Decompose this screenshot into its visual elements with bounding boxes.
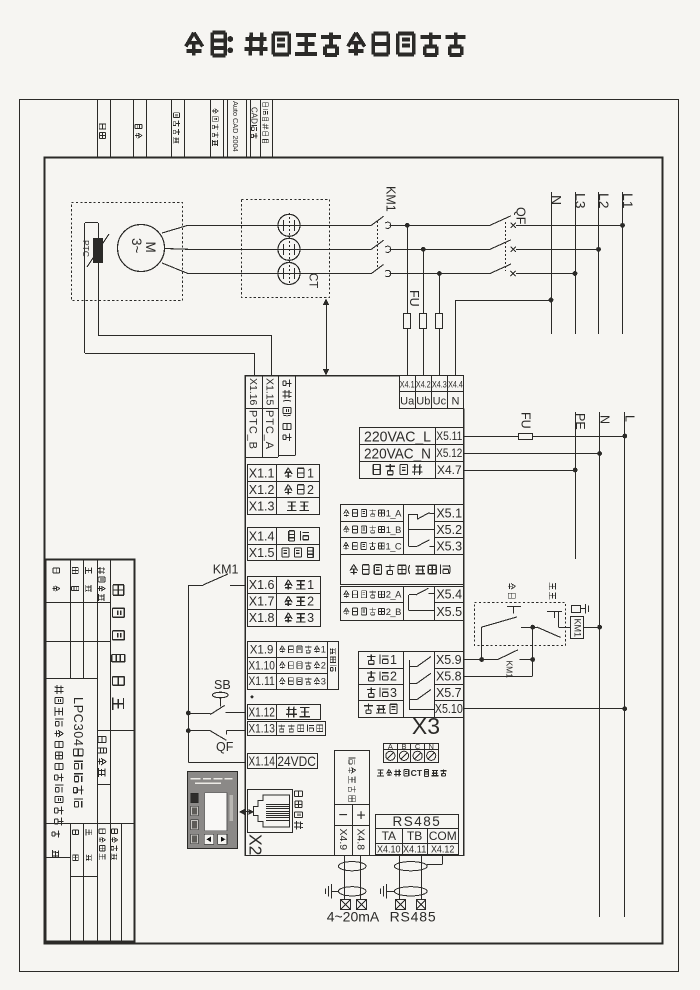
input row X1.4 复位 <box>248 528 320 545</box>
relay contacts control common <box>409 657 434 710</box>
svg-text:L3: L3 <box>572 193 588 209</box>
terminal row 保护接地 X4.7 <box>360 462 464 479</box>
left control bus vertical <box>188 585 190 763</box>
fuse group FU label <box>407 290 421 307</box>
terminal cells X1.16 X1.15 with 温度(热)保护 <box>245 376 295 458</box>
svg-text:N: N <box>598 415 612 424</box>
wire X5.12 to N <box>464 453 600 455</box>
svg-text:X1.14: X1.14 <box>248 754 275 768</box>
control label 公共端 <box>364 704 397 714</box>
motor M1 circle <box>118 225 165 272</box>
terminal block X4.1-X4.4 <box>399 376 463 409</box>
svg-text:X4.10: X4.10 <box>377 844 401 855</box>
label KM1 aux <box>505 661 515 679</box>
svg-text:X4.4: X4.4 <box>448 379 463 389</box>
junction dot QF node <box>186 728 191 733</box>
riser start button left <box>481 627 483 659</box>
wire KM1 to QF phase V <box>390 249 491 251</box>
fuse FU3 <box>436 274 443 376</box>
input row X1.7 反馈2 <box>248 594 321 610</box>
border strip cell 签名 <box>133 99 135 158</box>
wire phase V motor to KM1 <box>188 249 371 251</box>
border strip cell 借通用件登记 <box>260 99 262 158</box>
title block grid lines <box>45 559 134 942</box>
analog polarity cells - + <box>335 804 370 826</box>
svg-text:X1.7: X1.7 <box>249 595 275 609</box>
PTC sensor loop wires <box>85 222 98 224</box>
junction dot X5.9 node <box>479 657 484 662</box>
start pushbutton NO 启动 <box>482 607 533 628</box>
RS485 block frame <box>376 815 459 855</box>
RJ45 jack X2 <box>248 790 293 833</box>
svg-text:Ua: Ua <box>400 396 415 408</box>
svg-text:FU: FU <box>407 290 421 307</box>
svg-text:X1.13: X1.13 <box>248 723 275 735</box>
svg-text:X1.10: X1.10 <box>248 660 275 672</box>
svg-text:X1.11: X1.11 <box>248 676 275 688</box>
svg-text:1_B: 1_B <box>386 524 402 535</box>
input row X1.8 反馈3 <box>248 610 321 627</box>
wire X4.7 to PE <box>464 470 576 472</box>
PTC thermistor element <box>94 239 103 263</box>
svg-text:3~: 3~ <box>129 238 144 254</box>
current transformer CT1 <box>278 214 300 236</box>
junction dot start-stop node <box>530 625 535 630</box>
title block project name LPC304 电机测控仪 <box>71 697 85 807</box>
svg-text:COM: COM <box>429 829 457 843</box>
svg-text:X1.5: X1.5 <box>249 546 275 560</box>
svg-text:1: 1 <box>307 466 314 480</box>
svg-text:2: 2 <box>390 670 397 684</box>
CT dotted enclosure <box>242 200 330 298</box>
breaker QF label <box>514 207 528 225</box>
title block company name 烟台华力电气 <box>112 585 125 710</box>
svg-text:24VDC: 24VDC <box>277 753 316 769</box>
wire QF to L2 <box>516 249 599 251</box>
line N lower <box>599 412 601 917</box>
PTC wire to X1.15 <box>98 335 272 337</box>
svg-text:220VAC_L: 220VAC_L <box>364 430 431 446</box>
svg-text:X1.16: X1.16 <box>247 378 259 406</box>
svg-text:L: L <box>623 415 637 422</box>
svg-text:Auto CAD 2004: Auto CAD 2004 <box>231 101 240 152</box>
inner drawing frame <box>45 158 663 944</box>
wire coil to N <box>583 627 599 629</box>
fuse FU control <box>519 434 533 440</box>
wire QF to L1 <box>516 225 623 227</box>
svg-text:SB: SB <box>214 678 231 692</box>
svg-text:X4.11: X4.11 <box>403 844 427 855</box>
stray ink dot <box>251 696 254 699</box>
title block bottom cells 图号/日期/比例/设计阶段/设计代号 <box>52 831 60 858</box>
input row X1.10 可编程输入2 <box>248 658 328 674</box>
wire X5.9 right <box>464 659 482 661</box>
input row X1.6 反馈1 <box>248 577 321 594</box>
junction dot phase U fuse tap <box>405 223 410 228</box>
PTC wire to X1.16 <box>85 353 255 355</box>
svg-text:X4.8: X4.8 <box>354 829 366 851</box>
stop pushbutton NC 停车 <box>533 611 562 637</box>
svg-text:X5.4: X5.4 <box>436 588 462 602</box>
analog output box 模拟量输出 <box>335 751 370 805</box>
svg-text:QF: QF <box>514 207 528 225</box>
svg-text:PTC: PTC <box>81 240 91 257</box>
input row X1.9 可编程输入1 <box>248 642 328 658</box>
svg-text:LPC304: LPC304 <box>71 697 85 746</box>
svg-text:Ub: Ub <box>416 396 430 408</box>
svg-text:X5.8: X5.8 <box>436 670 462 684</box>
wire X5.10 to L <box>464 708 625 710</box>
cable terminals RS485 <box>396 900 406 910</box>
svg-text:X1.3: X1.3 <box>249 499 275 513</box>
label 停车 rotated <box>549 583 555 600</box>
terminal X1.15 PTC_A label <box>263 378 275 406</box>
svg-text:L2: L2 <box>596 193 612 209</box>
label 面板接口 <box>294 791 303 830</box>
svg-text:3: 3 <box>321 676 326 686</box>
svg-text:TB: TB <box>407 829 422 843</box>
svg-text:N: N <box>548 195 564 205</box>
svg-text:KM1: KM1 <box>505 661 515 679</box>
motor dotted enclosure <box>72 203 183 301</box>
svg-text:N: N <box>452 396 460 408</box>
wire X5.8 right up <box>464 676 533 678</box>
CT secondary arrow to controller <box>326 302 328 373</box>
drawing title 附二:直接旁路启动接线图 <box>186 33 466 56</box>
svg-text:1_C: 1_C <box>386 540 402 551</box>
screw terminal circle <box>427 751 436 760</box>
junction dot L1 <box>620 223 625 228</box>
border strip cell Auto CAD 2004 <box>227 99 229 158</box>
svg-text:PE: PE <box>573 413 587 430</box>
svg-text:X1.2: X1.2 <box>249 483 275 497</box>
junction dot L2 <box>596 247 601 252</box>
junction dot L3 <box>573 271 578 276</box>
breaker QF pole link dashed <box>505 222 507 271</box>
wire stop to coil <box>558 627 571 629</box>
contactor KM1 pole 2 <box>371 240 390 252</box>
label 启动 rotated <box>508 584 516 599</box>
svg-text:KM1: KM1 <box>213 563 239 577</box>
feedback contact KM1 NO <box>188 574 245 586</box>
screw terminal circle <box>399 751 408 760</box>
output rows 可编程输出1 X5.1-X5.3 frame <box>340 505 463 555</box>
svg-text:X5.1: X5.1 <box>436 507 462 521</box>
svg-text:3: 3 <box>390 686 397 700</box>
line PE <box>575 412 577 559</box>
svg-text:2_A: 2_A <box>386 589 402 600</box>
title block cell 分项名称 <box>98 737 107 777</box>
supply line L2 <box>598 192 600 334</box>
wire QF to L3 <box>516 273 575 275</box>
input row X1.3 停车 <box>248 498 320 515</box>
border strip cell CAD制图 <box>250 99 252 158</box>
svg-text:B: B <box>401 742 406 751</box>
svg-text:X5.5: X5.5 <box>436 605 462 619</box>
motor label M 3~ <box>143 242 158 253</box>
svg-text:+: + <box>356 808 365 825</box>
svg-text:Uc: Uc <box>433 396 447 408</box>
svg-text:X3: X3 <box>412 713 440 739</box>
breaker QF pole 1 <box>490 216 516 228</box>
svg-text:CT: CT <box>411 768 423 778</box>
svg-text:X4.2: X4.2 <box>416 379 431 389</box>
svg-text:1_A: 1_A <box>386 507 402 518</box>
svg-text:X1.8: X1.8 <box>249 611 275 625</box>
input row X1.1 启动1 <box>248 465 320 482</box>
fuse FU2 <box>420 249 427 375</box>
emergency stop SB NC <box>188 697 245 714</box>
svg-text:RS485: RS485 <box>390 909 437 925</box>
wire 24VDC supply <box>188 762 190 764</box>
terminal row 220VAC_L X5.11 <box>360 428 464 446</box>
border strip cell 底图总号 <box>171 99 173 158</box>
title block header cells 设计/校对/审核/工程名称 <box>53 568 60 591</box>
relay contact SPDT K1 <box>409 513 435 547</box>
screw terminal circle <box>413 751 422 760</box>
svg-text:X5.9: X5.9 <box>436 653 462 667</box>
CT winding ticks <box>284 220 295 279</box>
junction dot X5.10-L <box>622 706 627 711</box>
svg-text:X5.11: X5.11 <box>436 429 462 443</box>
title block frame <box>46 560 135 942</box>
supply line N top <box>551 192 553 334</box>
border strip cell 旧底图总号 <box>210 99 212 158</box>
svg-text:X4.7: X4.7 <box>437 463 462 477</box>
junction dot X5.11-L <box>622 434 627 439</box>
connector designation X2 <box>245 834 265 855</box>
input row X1.12 紧停 <box>248 705 321 720</box>
PTC label <box>81 240 91 257</box>
input row X1.11 可编程输入3 <box>248 674 328 690</box>
svg-text:X5.7: X5.7 <box>436 686 462 700</box>
junction dot phase V fuse tap <box>421 247 426 252</box>
motor phase stubs <box>162 225 188 233</box>
wire X4.4 to N <box>456 300 552 302</box>
svg-text:RS485: RS485 <box>393 814 442 829</box>
bracket 自定义 for programmable inputs <box>328 642 339 690</box>
svg-text:X1.4: X1.4 <box>249 529 275 543</box>
contactor coil KM1 <box>571 617 584 639</box>
junction dot X5.12-N <box>597 451 602 456</box>
coil suppressor box <box>572 606 581 613</box>
wire X5.11 to L with fuse FU <box>464 436 518 438</box>
junction dot stop node <box>530 657 535 662</box>
junction dot X4.7-PE <box>573 468 578 473</box>
svg-text:L1: L1 <box>620 193 636 209</box>
auxiliary contact KM1 self-hold <box>482 650 533 660</box>
svg-text:X1.1: X1.1 <box>249 466 275 480</box>
current transformer CT2 <box>278 238 300 260</box>
breaker QF pole 3 <box>490 264 516 276</box>
svg-text:1: 1 <box>390 653 397 667</box>
CT secondary link dashed <box>289 213 291 285</box>
control rows 控制1-3 公共端 frame <box>358 651 463 718</box>
svg-text:X4.3: X4.3 <box>432 379 447 389</box>
svg-text:FU: FU <box>519 412 533 429</box>
breaker position contact QF NO <box>188 731 245 741</box>
wire KM1 to QF phase U <box>390 225 491 227</box>
terminal block ABCN for external CT <box>384 744 439 763</box>
input row X1.5 热清零 <box>248 545 320 561</box>
svg-text:CAD: CAD <box>249 107 258 124</box>
svg-text:PTC_A: PTC_A <box>263 410 275 450</box>
title block drawing name 直接旁路启动方式控制接线图 <box>55 685 64 825</box>
supply line L1 <box>622 192 624 334</box>
junction dot phase W fuse tap <box>437 271 442 276</box>
CT label <box>307 273 319 288</box>
riser start button right <box>532 627 534 659</box>
terminals X4.9 X4.8 <box>335 826 370 856</box>
svg-text:2: 2 <box>307 595 314 609</box>
svg-text:X4.1: X4.1 <box>400 379 415 389</box>
panel link arrow <box>241 811 252 813</box>
svg-text:X4.12: X4.12 <box>431 844 455 855</box>
wire KM1 to QF phase W <box>390 273 491 275</box>
svg-text:2: 2 <box>321 661 326 671</box>
svg-text:PTC_B: PTC_B <box>247 410 259 449</box>
svg-text:A: A <box>388 742 393 751</box>
svg-text:X4.9: X4.9 <box>337 829 349 851</box>
relay contact NO K2 <box>409 588 435 610</box>
input row X1.2 启动2 <box>248 482 320 498</box>
contactor KM1 pole 3 <box>371 265 390 277</box>
svg-text:2: 2 <box>307 483 314 497</box>
border strip cell 日期 <box>97 99 99 158</box>
svg-text:X2: X2 <box>245 834 265 855</box>
svg-text:3: 3 <box>307 611 314 625</box>
label 温度(热)保护 <box>283 380 292 442</box>
svg-text:X1.6: X1.6 <box>249 578 275 592</box>
input row X1.14 24VDC <box>248 753 318 769</box>
svg-text:KM1: KM1 <box>384 186 398 212</box>
svg-text:TA: TA <box>382 829 396 843</box>
wire X4.12 into cable <box>442 855 444 864</box>
current transformer CT3 <box>278 263 300 285</box>
wire phase W motor to KM1 <box>188 273 371 275</box>
svg-text:C: C <box>415 742 421 751</box>
junction dot coil-N <box>597 625 602 630</box>
shielded cable RS485 <box>381 855 428 899</box>
supply line L3 <box>575 192 577 334</box>
svg-text:M: M <box>143 242 158 253</box>
svg-text:CT: CT <box>307 273 319 288</box>
input row X1.13 断路器位置 <box>248 722 326 736</box>
svg-text:X1.15: X1.15 <box>263 378 275 406</box>
svg-text:X5.2: X5.2 <box>436 523 462 537</box>
fuse FU1 <box>404 225 411 375</box>
junction dot N <box>549 298 554 303</box>
svg-text:QF: QF <box>216 740 234 754</box>
output rows 可编程输出2 X5.4-X5.5 frame <box>340 586 463 620</box>
junction dot SB node <box>186 711 191 716</box>
wire phase U motor to KM1 <box>188 225 371 227</box>
svg-text:220VAC_N: 220VAC_N <box>364 447 431 463</box>
contactor KM1 pole 1 <box>371 216 390 228</box>
display panel LPC304 device <box>188 772 238 849</box>
svg-text:2_B: 2_B <box>386 606 402 617</box>
svg-text:X1.12: X1.12 <box>248 705 275 719</box>
label 可编程输出（自定义） <box>341 555 464 585</box>
svg-text:4~20mA: 4~20mA <box>327 909 380 925</box>
breaker QF pole 2 <box>490 240 516 252</box>
screw terminal circle <box>386 751 395 760</box>
svg-text:KM1: KM1 <box>572 619 582 638</box>
svg-text:X5.12: X5.12 <box>436 446 462 460</box>
controller LPC304 outline <box>245 376 463 856</box>
svg-text:N: N <box>428 742 433 751</box>
start stop dotted enclosure <box>475 603 566 646</box>
svg-text:X1.9: X1.9 <box>250 644 274 656</box>
contactor KM1 pole link dashed <box>377 221 379 269</box>
shielded cable 4-20mA <box>326 855 367 899</box>
svg-text:1: 1 <box>321 645 326 655</box>
svg-text:−: − <box>339 807 348 824</box>
terminal X1.16 PTC_B label <box>247 378 259 406</box>
svg-text:X5.3: X5.3 <box>436 539 462 553</box>
cable terminals 4-20mA <box>341 900 351 910</box>
svg-text:1: 1 <box>307 578 314 592</box>
line L lower <box>624 412 626 917</box>
terminal row 220VAC_N X5.12 <box>360 445 464 463</box>
contactor KM1 label <box>384 186 398 212</box>
